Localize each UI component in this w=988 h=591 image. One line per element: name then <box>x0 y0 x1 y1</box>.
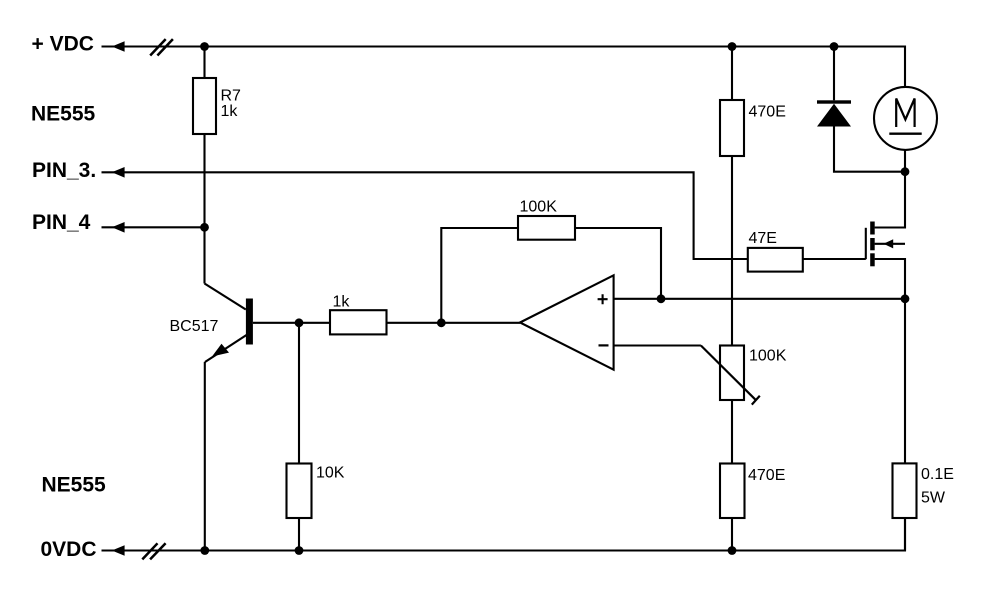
node source sense <box>901 294 910 303</box>
wire bottom 0VDC rail <box>102 518 906 551</box>
wire op-amp plus input to source node <box>614 298 905 300</box>
arrow PIN_3 <box>112 167 125 178</box>
node 10K ground <box>295 546 304 555</box>
svg-text:+ VDC: + VDC <box>32 32 94 55</box>
svg-text:1k: 1k <box>333 293 351 310</box>
transistor Q1 BC517 <box>170 284 253 363</box>
svg-text:PIN_4: PIN_4 <box>32 211 91 234</box>
wire 10K stem bottom <box>298 518 300 551</box>
wire source node to 0.1E <box>904 299 906 464</box>
svg-text:470E: 470E <box>748 467 785 484</box>
svg-text:10K: 10K <box>316 465 345 482</box>
wire motor bottom stem <box>904 150 906 172</box>
svg-text:BC517: BC517 <box>170 318 219 335</box>
wire right column mid <box>731 156 733 346</box>
wire right column upper <box>731 47 733 101</box>
node output <box>437 318 446 327</box>
wire emitter vertical <box>204 362 206 551</box>
arrow 0VDC <box>112 545 125 556</box>
node emitter ground <box>200 546 209 555</box>
svg-text:PIN_3.: PIN_3. <box>32 159 96 182</box>
wire 10K stem top <box>298 323 300 464</box>
wire right column pot to 470E <box>731 400 733 464</box>
op-amp U1 <box>520 275 614 369</box>
potentiometer 100K <box>701 346 787 405</box>
wire PIN_3 run <box>102 172 748 259</box>
wire 0.1E bottom stem <box>904 518 906 551</box>
wire feedback loop 100K <box>441 228 518 323</box>
wire PIN_4 stub <box>102 226 205 228</box>
svg-text:NE555: NE555 <box>31 103 96 126</box>
diode D1 (flyback) <box>817 100 851 126</box>
wire right column bottom <box>731 518 733 551</box>
resistor 470E (top) <box>720 100 744 156</box>
svg-text:R7: R7 <box>221 88 242 105</box>
wire drain lead <box>875 172 905 228</box>
arrow PIN_4 <box>112 222 125 233</box>
wire R7 bottom stem to collector <box>203 134 205 284</box>
node R7 top <box>200 42 209 51</box>
svg-text:5W: 5W <box>921 490 946 507</box>
resistor 47E <box>748 248 803 272</box>
node 470E top <box>728 42 737 51</box>
resistor 100K (feedback) <box>518 216 575 240</box>
wire op-amp minus input <box>614 344 701 346</box>
node PIN_4 <box>200 223 209 232</box>
wire 1k to output node <box>387 322 442 324</box>
break symbol 0VDC rail <box>142 543 165 559</box>
svg-text:1k: 1k <box>221 103 239 120</box>
wire 47E to gate <box>803 258 866 260</box>
wire mosfet source lead <box>875 259 905 299</box>
break symbol + VDC rail <box>150 39 173 55</box>
svg-text:0VDC: 0VDC <box>41 538 97 561</box>
wire diode bottom to drain node <box>834 127 905 172</box>
resistor 10K <box>287 464 312 519</box>
svg-text:100K: 100K <box>749 348 787 365</box>
node diode top <box>830 42 839 51</box>
svg-text:470E: 470E <box>749 103 786 120</box>
resistor 0.1E 5W <box>893 463 917 518</box>
node motor bottom <box>901 167 910 176</box>
node base <box>295 318 304 327</box>
motor M1 <box>874 87 937 150</box>
svg-text:47E: 47E <box>749 230 777 247</box>
arrow + VDC <box>112 41 125 52</box>
svg-text:0.1E: 0.1E <box>921 466 954 483</box>
transistor Q2 MOSFET <box>866 222 893 267</box>
svg-text:NE555: NE555 <box>42 474 107 497</box>
wire output node to op-amp <box>441 322 520 324</box>
node plus input <box>657 294 666 303</box>
wire diode top stem <box>833 47 835 101</box>
wire mosfet body lead <box>875 243 905 245</box>
resistor R7 1k <box>193 78 216 134</box>
wire R7 top stem <box>203 47 205 79</box>
wire top +VDC rail <box>102 47 906 88</box>
resistor 1k (base) <box>330 310 387 334</box>
node 470E ground <box>728 546 737 555</box>
wire feedback right to plus node <box>575 228 661 299</box>
resistor 470E (bottom) <box>720 464 745 519</box>
wire base node run <box>253 322 330 324</box>
svg-text:100K: 100K <box>520 199 558 216</box>
